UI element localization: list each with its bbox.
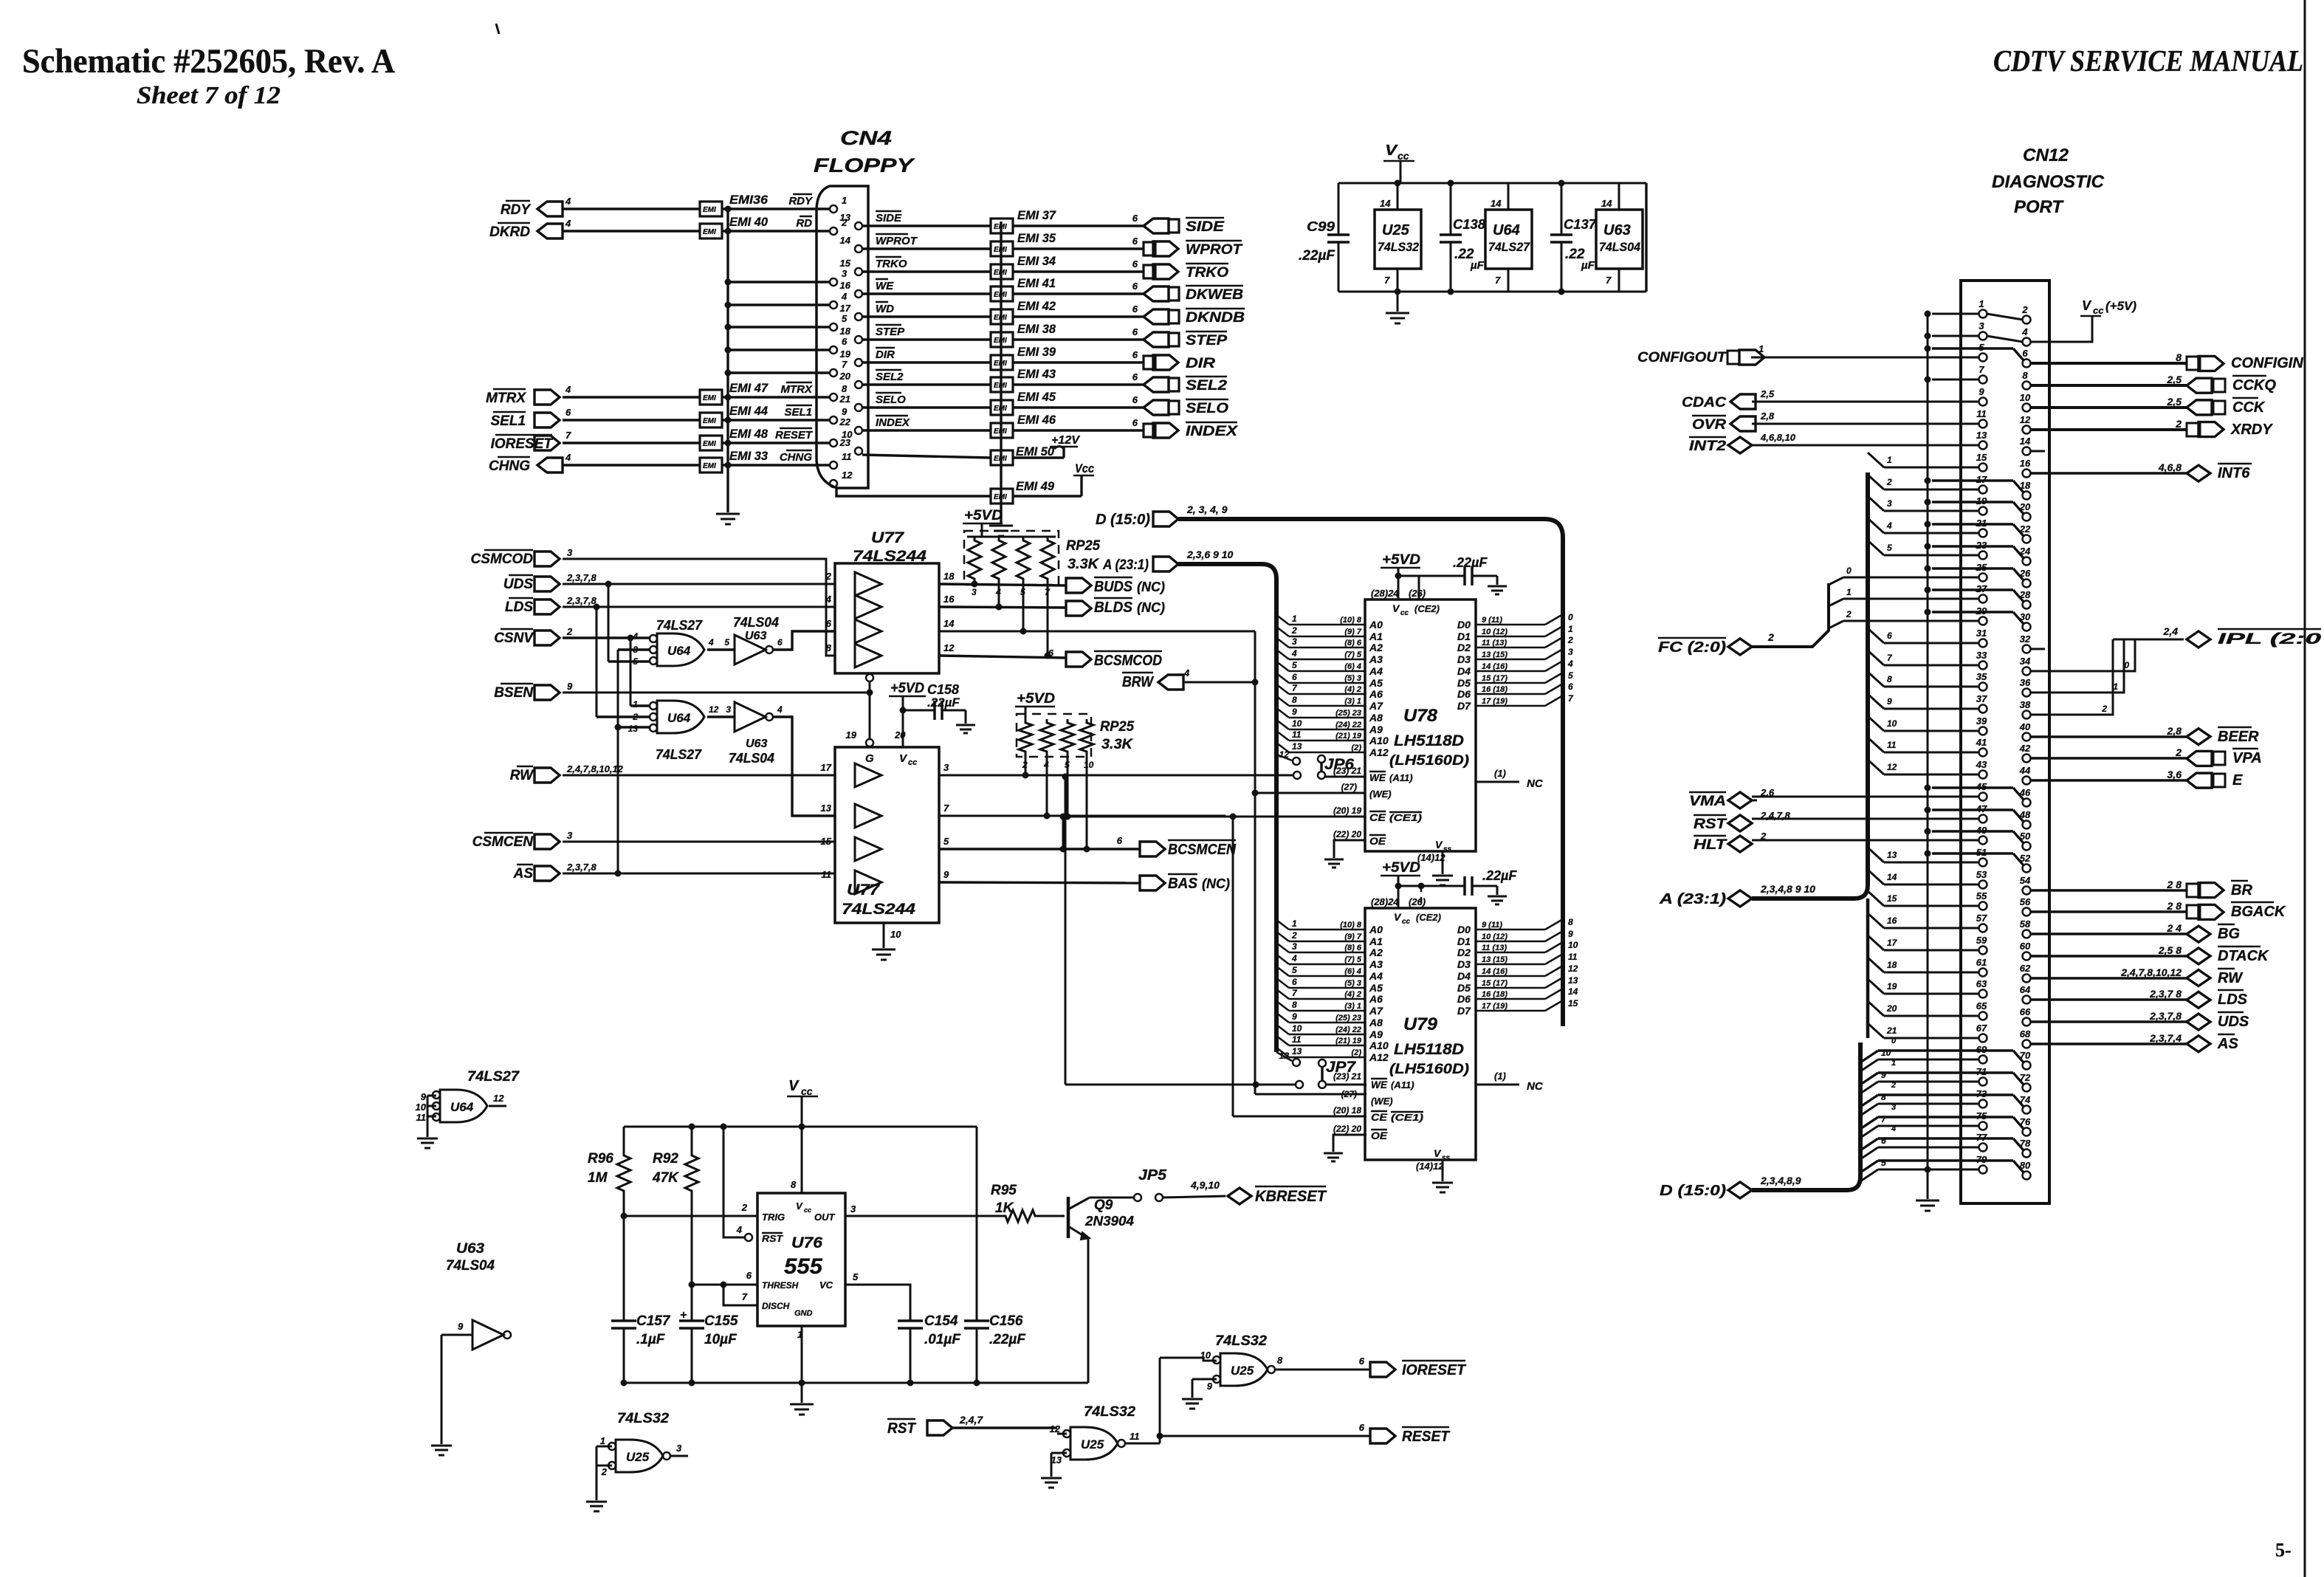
svg-text:74LS32: 74LS32 [1378, 240, 1420, 254]
svg-text:(27): (27) [1341, 782, 1357, 792]
svg-text:15: 15 [821, 836, 832, 847]
svg-text:3: 3 [567, 547, 573, 558]
svg-text:cc: cc [2093, 305, 2104, 316]
svg-text:12: 12 [1887, 762, 1897, 772]
svg-text:(1): (1) [1494, 768, 1506, 779]
svg-text:5: 5 [842, 313, 848, 324]
svg-text:(6) 4: (6) 4 [1344, 662, 1361, 671]
svg-text:A12: A12 [1369, 746, 1389, 758]
resistor pack RP25 lower 3.3K [1017, 714, 1091, 757]
svg-text:4: 4 [565, 384, 571, 395]
svg-text:CSMCOD: CSMCOD [471, 552, 534, 567]
svg-text:(4) 2: (4) 2 [1344, 685, 1361, 694]
svg-text:2: 2 [1291, 625, 1297, 636]
svg-text:(LH5160D): (LH5160D) [1389, 1062, 1469, 1077]
svg-text:19: 19 [840, 348, 851, 360]
svg-text:2,3,7,4: 2,3,7,4 [2149, 1032, 2182, 1044]
svg-text:7: 7 [1979, 364, 1984, 375]
svg-text:(NC): (NC) [1202, 876, 1230, 891]
svg-text:(3) 1: (3) 1 [1344, 1002, 1361, 1011]
svg-text:(6) 4: (6) 4 [1344, 967, 1361, 976]
svg-text:CCK: CCK [2232, 399, 2266, 416]
svg-text:(27): (27) [1341, 1089, 1357, 1099]
wire RST pin4 hook [723, 1127, 745, 1237]
svg-text:NC: NC [1527, 1080, 1544, 1093]
svg-text:9: 9 [567, 681, 573, 692]
svg-text:68: 68 [2020, 1028, 2031, 1040]
svg-text:1: 1 [600, 1435, 605, 1446]
svg-text:3: 3 [676, 1443, 682, 1454]
svg-text:60: 60 [2020, 941, 2031, 952]
svg-text:EMI: EMI [703, 394, 716, 402]
svg-text:D3: D3 [1457, 958, 1471, 970]
wire CSMCEN to U77 pin15 [563, 841, 835, 843]
svg-text:5: 5 [1568, 670, 1573, 681]
wires CN4 left flags to EMI to pins [563, 207, 700, 210]
svg-text:A5: A5 [1369, 982, 1383, 994]
svg-text:EMI 42: EMI 42 [1017, 299, 1056, 313]
svg-text:DIR: DIR [1186, 356, 1215, 371]
ground bypass [1397, 292, 1399, 312]
svg-text:D5: D5 [1457, 982, 1471, 994]
svg-text:U77: U77 [847, 882, 880, 899]
svg-text:10: 10 [1200, 1350, 1211, 1361]
svg-text:34: 34 [2020, 656, 2031, 667]
svg-text:(CE1): (CE1) [1389, 812, 1422, 823]
svg-text:2: 2 [2021, 304, 2028, 315]
wire U77b out pin9 to BAS flag [939, 882, 1140, 883]
svg-text:7: 7 [842, 359, 848, 370]
svg-text:A9: A9 [1369, 1028, 1383, 1040]
svg-text:11: 11 [842, 451, 852, 462]
svg-text:16: 16 [1887, 915, 1897, 926]
inverter U63 b 74LS04 [707, 715, 735, 718]
svg-text:14: 14 [1887, 872, 1897, 882]
svg-text:EMI 41: EMI 41 [1017, 276, 1056, 290]
inverter U63 a 74LS04 [707, 648, 735, 650]
svg-text:EMI: EMI [703, 440, 716, 448]
svg-text:(9) 7: (9) 7 [1344, 628, 1362, 636]
svg-text:11: 11 [1976, 408, 1987, 419]
svg-text:22: 22 [839, 416, 851, 427]
svg-text:6: 6 [2022, 348, 2028, 359]
svg-text:(CE2): (CE2) [1414, 603, 1440, 614]
svg-text:FLOPPY: FLOPPY [814, 154, 916, 176]
svg-text:SELO: SELO [876, 394, 906, 406]
svg-text:13: 13 [1976, 430, 1987, 441]
svg-text:BLDS: BLDS [1094, 599, 1133, 616]
svg-text:4: 4 [841, 291, 848, 302]
svg-text:(LH5160D): (LH5160D) [1389, 753, 1469, 769]
svg-text:13: 13 [1051, 1454, 1062, 1466]
svg-text:1: 1 [1887, 455, 1892, 465]
svg-text:MTRX: MTRX [781, 383, 813, 396]
svg-text:JP5: JP5 [1138, 1167, 1167, 1183]
svg-text:EMI 37: EMI 37 [1017, 208, 1056, 222]
svg-text:8: 8 [842, 383, 848, 394]
svg-text:2,3,7,8: 2,3,7,8 [566, 572, 597, 583]
IC U79 LH5118D RAM [1365, 908, 1476, 1160]
svg-text:(20) 18: (20) 18 [1333, 1105, 1361, 1116]
jumper JP7 [1321, 1067, 1323, 1081]
svg-text:D7: D7 [1457, 1005, 1471, 1017]
svg-text:DIAGNOSTIC: DIAGNOSTIC [1992, 172, 2105, 192]
svg-text:A8: A8 [1369, 712, 1383, 724]
svg-text:21: 21 [1886, 1025, 1897, 1036]
svg-text:BR: BR [2231, 882, 2252, 899]
svg-text:6: 6 [1132, 236, 1138, 247]
svg-text:.22µF: .22µF [1453, 555, 1488, 570]
svg-text:16 (18): 16 (18) [1482, 990, 1507, 999]
svg-text:1: 1 [1979, 298, 1984, 309]
U79 data taps to D bus [1476, 929, 1545, 931]
wire CE line U78 [1063, 816, 1365, 818]
wire pin12 to EMI49, Vcc [836, 487, 991, 496]
svg-text:(10) 8: (10) 8 [1340, 921, 1362, 930]
svg-text:RESET: RESET [1402, 1429, 1451, 1445]
svg-text:A3: A3 [1369, 958, 1383, 970]
svg-text:(A11): (A11) [1391, 1079, 1414, 1090]
wire VC pin5 to C154 [845, 1285, 910, 1321]
svg-text:10: 10 [1084, 760, 1094, 770]
svg-text:2: 2 [1022, 760, 1028, 770]
svg-text:EMI 33: EMI 33 [729, 449, 769, 463]
svg-text:9: 9 [842, 406, 848, 417]
svg-text:(2): (2) [1352, 743, 1362, 752]
svg-text:7: 7 [1606, 275, 1612, 286]
svg-text:A7: A7 [1369, 1005, 1383, 1017]
svg-text:D6: D6 [1457, 688, 1471, 700]
svg-text:4: 4 [777, 704, 783, 715]
svg-text:AS: AS [513, 866, 534, 882]
svg-text:.1µF: .1µF [636, 1332, 666, 1347]
svg-text:4: 4 [1183, 667, 1190, 678]
U79 row 12 jumper stub [1276, 1052, 1292, 1061]
svg-text:WE: WE [1371, 1079, 1388, 1090]
svg-text:11 (13): 11 (13) [1482, 639, 1507, 647]
svg-text:V: V [788, 1078, 800, 1094]
svg-text:10: 10 [416, 1102, 427, 1113]
svg-text:(22) 20: (22) 20 [1333, 829, 1361, 839]
wire BSEN [563, 692, 870, 694]
capacitor C137 .22uF [1561, 183, 1563, 235]
svg-text:10 (12): 10 (12) [1482, 628, 1507, 636]
IC U76 555 timer [757, 1193, 845, 1326]
U79 address taps from A bus [1289, 929, 1365, 931]
svg-text:20: 20 [839, 371, 851, 382]
svg-text:cc: cc [1400, 609, 1409, 617]
flag BSEN [534, 685, 560, 700]
svg-text:A3: A3 [1369, 653, 1383, 665]
svg-text:C137: C137 [1564, 217, 1597, 232]
svg-text:43: 43 [1976, 759, 1987, 770]
wire Q9 collector to JP5 KBRESET [1090, 1197, 1134, 1199]
svg-text:47K: 47K [652, 1170, 679, 1186]
svg-text:EMI 34: EMI 34 [1017, 254, 1056, 268]
svg-text:R92: R92 [653, 1151, 678, 1167]
svg-text:4: 4 [1291, 953, 1297, 963]
svg-text:RST: RST [887, 1420, 917, 1437]
svg-text:13: 13 [1292, 741, 1302, 752]
svg-text:41: 41 [1976, 737, 1987, 748]
svg-text:2: 2 [2101, 704, 2107, 714]
svg-text:C156: C156 [989, 1313, 1023, 1329]
svg-text:G: G [865, 752, 874, 765]
svg-text:1: 1 [633, 699, 638, 710]
svg-text:A4: A4 [1369, 665, 1383, 677]
svg-text:63: 63 [1976, 978, 1987, 989]
svg-text:40: 40 [2019, 721, 2031, 732]
svg-text:8: 8 [1887, 674, 1892, 684]
svg-text:2: 2 [632, 712, 638, 722]
svg-text:EMI 43: EMI 43 [1017, 367, 1056, 381]
svg-text:(2): (2) [1352, 1048, 1362, 1057]
svg-text:WPROT: WPROT [1186, 242, 1242, 258]
svg-text:cc: cc [1398, 150, 1409, 162]
svg-text:U78: U78 [1403, 706, 1438, 726]
svg-text:A2: A2 [1369, 946, 1383, 958]
svg-text:9: 9 [458, 1321, 464, 1332]
svg-text:16: 16 [2020, 458, 2031, 469]
svg-text:RW: RW [2218, 970, 2244, 986]
wire UDS to U77 pin2 [563, 583, 835, 585]
svg-text:9 (11): 9 (11) [1482, 921, 1502, 930]
svg-text:17: 17 [840, 303, 851, 314]
svg-text:U64: U64 [450, 1100, 474, 1114]
555 top bus [624, 1126, 977, 1128]
svg-text:2N3904: 2N3904 [1084, 1214, 1134, 1229]
svg-text:(22) 20: (22) 20 [1333, 1124, 1361, 1134]
svg-text:(20) 19: (20) 19 [1333, 805, 1361, 816]
svg-text:D2: D2 [1457, 946, 1471, 958]
svg-text:65: 65 [1976, 1000, 1987, 1011]
svg-text:V: V [1385, 142, 1398, 159]
svg-text:15: 15 [1887, 893, 1897, 904]
svg-text:10: 10 [890, 929, 901, 940]
bypass top bus [1338, 182, 1646, 185]
U78 data taps to D bus [1476, 624, 1545, 626]
svg-text:(8) 6: (8) 6 [1344, 639, 1362, 647]
svg-text:CONFIGOUT: CONFIGOUT [1637, 350, 1727, 365]
svg-text:Vcc: Vcc [1075, 461, 1094, 475]
svg-text:(10) 8: (10) 8 [1340, 616, 1362, 625]
svg-text:U25: U25 [626, 1450, 650, 1464]
IC U63 74LS04 power box [1596, 210, 1643, 269]
svg-text:56: 56 [2020, 896, 2031, 907]
svg-text:8: 8 [791, 1179, 797, 1190]
svg-text:(24) 22: (24) 22 [1335, 721, 1361, 729]
svg-text:2,5: 2,5 [2167, 374, 2182, 385]
svg-text:12: 12 [709, 704, 719, 715]
svg-text:A (23:1): A (23:1) [1102, 557, 1149, 573]
svg-text:KBRESET: KBRESET [1255, 1188, 1327, 1205]
svg-text:12: 12 [2020, 414, 2031, 425]
svg-text:(1): (1) [1494, 1071, 1506, 1082]
svg-text:Sheet 7 of 12: Sheet 7 of 12 [137, 82, 281, 109]
svg-text:(+5V): (+5V) [2105, 299, 2136, 313]
svg-text:A9: A9 [1369, 724, 1383, 735]
svg-text:cc: cc [1402, 918, 1411, 926]
svg-text:1: 1 [1846, 587, 1852, 597]
svg-text:74LS04: 74LS04 [1599, 240, 1641, 254]
ground 555 GND pin [801, 1326, 803, 1383]
svg-text:RST: RST [1694, 817, 1727, 832]
svg-text:0: 0 [1891, 1037, 1897, 1045]
svg-text:9: 9 [1568, 929, 1573, 939]
svg-text:(26): (26) [1409, 588, 1426, 599]
svg-text:EMI 45: EMI 45 [1017, 390, 1056, 404]
svg-text:3: 3 [1568, 647, 1573, 657]
svg-text:BCSMCOD: BCSMCOD [1094, 653, 1162, 669]
IC U78 LH5118D RAM [1365, 599, 1476, 851]
svg-text:(WE): (WE) [1369, 788, 1392, 800]
svg-text:VPA: VPA [2232, 750, 2262, 766]
svg-text:D5: D5 [1457, 677, 1471, 689]
wire RST buffered to RESET and IORESET gate [1125, 1443, 1160, 1445]
svg-text:4: 4 [565, 196, 571, 207]
flag AS [534, 866, 560, 881]
capacitor .22uF U78 [1398, 575, 1465, 577]
svg-text:VMA: VMA [1689, 794, 1726, 809]
svg-text:11: 11 [1292, 1034, 1302, 1045]
svg-text:10: 10 [1292, 718, 1302, 729]
svg-text:2: 2 [741, 1202, 748, 1213]
svg-text:9: 9 [1207, 1381, 1213, 1392]
svg-text:(23) 21: (23) 21 [1333, 1071, 1361, 1082]
svg-text:STEP: STEP [1186, 333, 1227, 348]
svg-text:17 (19): 17 (19) [1482, 1002, 1507, 1011]
stray tick mark [496, 24, 499, 34]
svg-text:3: 3 [633, 645, 638, 655]
svg-text:EMI 44: EMI 44 [729, 404, 769, 418]
svg-text:A1: A1 [1369, 935, 1383, 947]
svg-text:(NC): (NC) [1137, 600, 1165, 615]
svg-text:8: 8 [1568, 917, 1573, 927]
svg-text:cc: cc [801, 1085, 813, 1097]
svg-text:21: 21 [839, 394, 850, 405]
svg-text:9: 9 [1881, 1070, 1886, 1080]
svg-text:74LS32: 74LS32 [1215, 1333, 1267, 1349]
svg-text:.01µF: .01µF [924, 1332, 961, 1347]
svg-text:11: 11 [1568, 952, 1578, 962]
svg-text:14 (16): 14 (16) [1482, 967, 1507, 976]
svg-text:3: 3 [1292, 941, 1297, 952]
svg-text:54: 54 [2020, 875, 2031, 886]
svg-text:1: 1 [1292, 614, 1297, 624]
svg-text:10: 10 [1568, 940, 1578, 950]
svg-text:5: 5 [1292, 660, 1297, 670]
IC U64 74LS27 power box [1485, 210, 1532, 269]
svg-text:1: 1 [1568, 624, 1573, 634]
svg-text:BCSMCEN: BCSMCEN [1168, 842, 1236, 858]
svg-text:2,3,4,8,9: 2,3,4,8,9 [1760, 1175, 1801, 1186]
svg-text:A12: A12 [1369, 1051, 1389, 1063]
svg-text:BGACK: BGACK [2231, 904, 2286, 920]
svg-text:74LS244: 74LS244 [842, 901, 915, 918]
svg-text:8: 8 [1292, 695, 1297, 705]
svg-text:3: 3 [1887, 498, 1892, 509]
svg-text:58: 58 [2020, 918, 2031, 930]
svg-text:3: 3 [943, 762, 949, 773]
svg-text:THRESH: THRESH [762, 1280, 799, 1291]
svg-text:42: 42 [2019, 743, 2031, 754]
svg-text:(3) 1: (3) 1 [1344, 697, 1361, 706]
svg-text:Q9: Q9 [1094, 1198, 1113, 1213]
svg-text:+5VD: +5VD [964, 508, 1003, 523]
svg-text:CDAC: CDAC [1682, 395, 1726, 410]
svg-text:11: 11 [1292, 729, 1302, 740]
U78 row 12 jumper stub [1276, 755, 1292, 760]
svg-text:(26): (26) [1409, 896, 1426, 907]
svg-text:6: 6 [777, 637, 783, 647]
flag CSMCEN [534, 834, 560, 849]
svg-text:D0: D0 [1457, 924, 1471, 935]
svg-text:6: 6 [1117, 835, 1123, 846]
svg-text:8: 8 [2176, 351, 2182, 363]
svg-text:5: 5 [724, 637, 729, 647]
svg-text:2,3,4,8 9 10: 2,3,4,8 9 10 [1760, 883, 1815, 895]
svg-text:(25) 23: (25) 23 [1335, 709, 1361, 718]
junction verticals for gate inputs [608, 584, 610, 662]
svg-text:4: 4 [565, 218, 571, 229]
svg-text:2,3,7 8: 2,3,7 8 [2149, 988, 2182, 1000]
svg-text:R95: R95 [991, 1183, 1017, 1198]
svg-text:7: 7 [1495, 275, 1501, 286]
svg-text:WE: WE [1369, 772, 1386, 783]
wire U77b out pin7 [939, 815, 1225, 817]
svg-text:14: 14 [1380, 198, 1391, 209]
svg-text:U25: U25 [1231, 1364, 1254, 1378]
CN4 right pins 13-23 [855, 222, 862, 230]
svg-text:V: V [796, 1200, 803, 1212]
svg-text:3: 3 [1891, 1103, 1896, 1112]
svg-text:5: 5 [1292, 965, 1297, 975]
svg-text:8: 8 [1881, 1092, 1886, 1102]
svg-text:32: 32 [2020, 633, 2031, 645]
flag LDS [534, 599, 560, 614]
stub wires pins 3-7 to ground bus [728, 281, 830, 283]
svg-text:U77: U77 [871, 529, 904, 546]
svg-text:DIR: DIR [876, 348, 895, 361]
svg-text:(28)24: (28)24 [1371, 896, 1399, 907]
svg-text:11: 11 [1130, 1431, 1140, 1442]
svg-text:2: 2 [1846, 609, 1852, 619]
svg-text:3: 3 [850, 1203, 856, 1214]
wire inverter a out to U77 pin6 [773, 631, 835, 650]
svg-text:D4: D4 [1457, 970, 1471, 982]
svg-text:59: 59 [1976, 935, 1987, 946]
svg-text:LH5118D: LH5118D [1394, 1041, 1464, 1058]
svg-text:C157: C157 [636, 1313, 671, 1329]
wire CSMCOD to U77 pin8 [563, 559, 835, 656]
svg-text:(7) 5: (7) 5 [1344, 650, 1362, 659]
svg-text:2,3,7,8: 2,3,7,8 [2149, 1010, 2182, 1022]
svg-text:TRIG: TRIG [762, 1212, 785, 1223]
flag BCSMCEN [1140, 842, 1165, 856]
op-amp U64 NOR gate b 74LS27 [657, 701, 704, 733]
flag BRW [1158, 675, 1183, 690]
resistor R95 1K [1003, 1210, 1038, 1222]
svg-text:LH5118D: LH5118D [1394, 732, 1464, 749]
svg-text:10 (12): 10 (12) [1482, 932, 1507, 941]
svg-text:OE: OE [1369, 835, 1386, 847]
svg-text:(21) 19: (21) 19 [1335, 732, 1362, 741]
capacitor C158 .22uF [903, 710, 935, 712]
wire BRW vertical to WE pins [1254, 631, 1256, 1094]
svg-text:74LS04: 74LS04 [729, 751, 774, 766]
svg-text:UDS: UDS [503, 577, 533, 592]
svg-text:(5) 3: (5) 3 [1344, 979, 1361, 988]
